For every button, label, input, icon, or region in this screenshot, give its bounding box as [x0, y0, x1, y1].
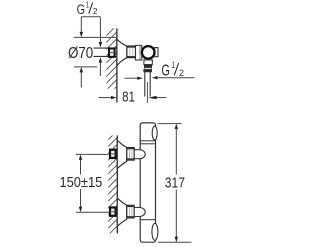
svg-text:2: 2	[179, 68, 184, 78]
svg-text:81: 81	[122, 89, 135, 105]
svg-text:2: 2	[93, 6, 98, 16]
svg-text:1: 1	[172, 60, 175, 70]
svg-text:Ø70: Ø70	[68, 45, 93, 62]
svg-text:1: 1	[86, 0, 89, 9]
svg-text:G: G	[161, 62, 170, 79]
svg-text:G: G	[77, 2, 85, 18]
svg-text:150±15: 150±15	[60, 175, 103, 191]
svg-text:317: 317	[165, 175, 185, 191]
